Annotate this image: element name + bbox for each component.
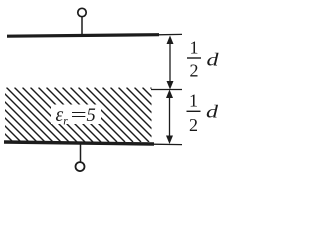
svg-text:1: 1 [190, 38, 199, 58]
svg-text:2: 2 [190, 61, 199, 81]
svg-text:1: 1 [189, 91, 198, 111]
svg-text:=: = [69, 106, 88, 126]
svg-text:d: d [207, 50, 220, 70]
svg-text:5: 5 [87, 106, 96, 126]
svg-text:2: 2 [189, 115, 198, 135]
svg-text:d: d [206, 102, 219, 122]
